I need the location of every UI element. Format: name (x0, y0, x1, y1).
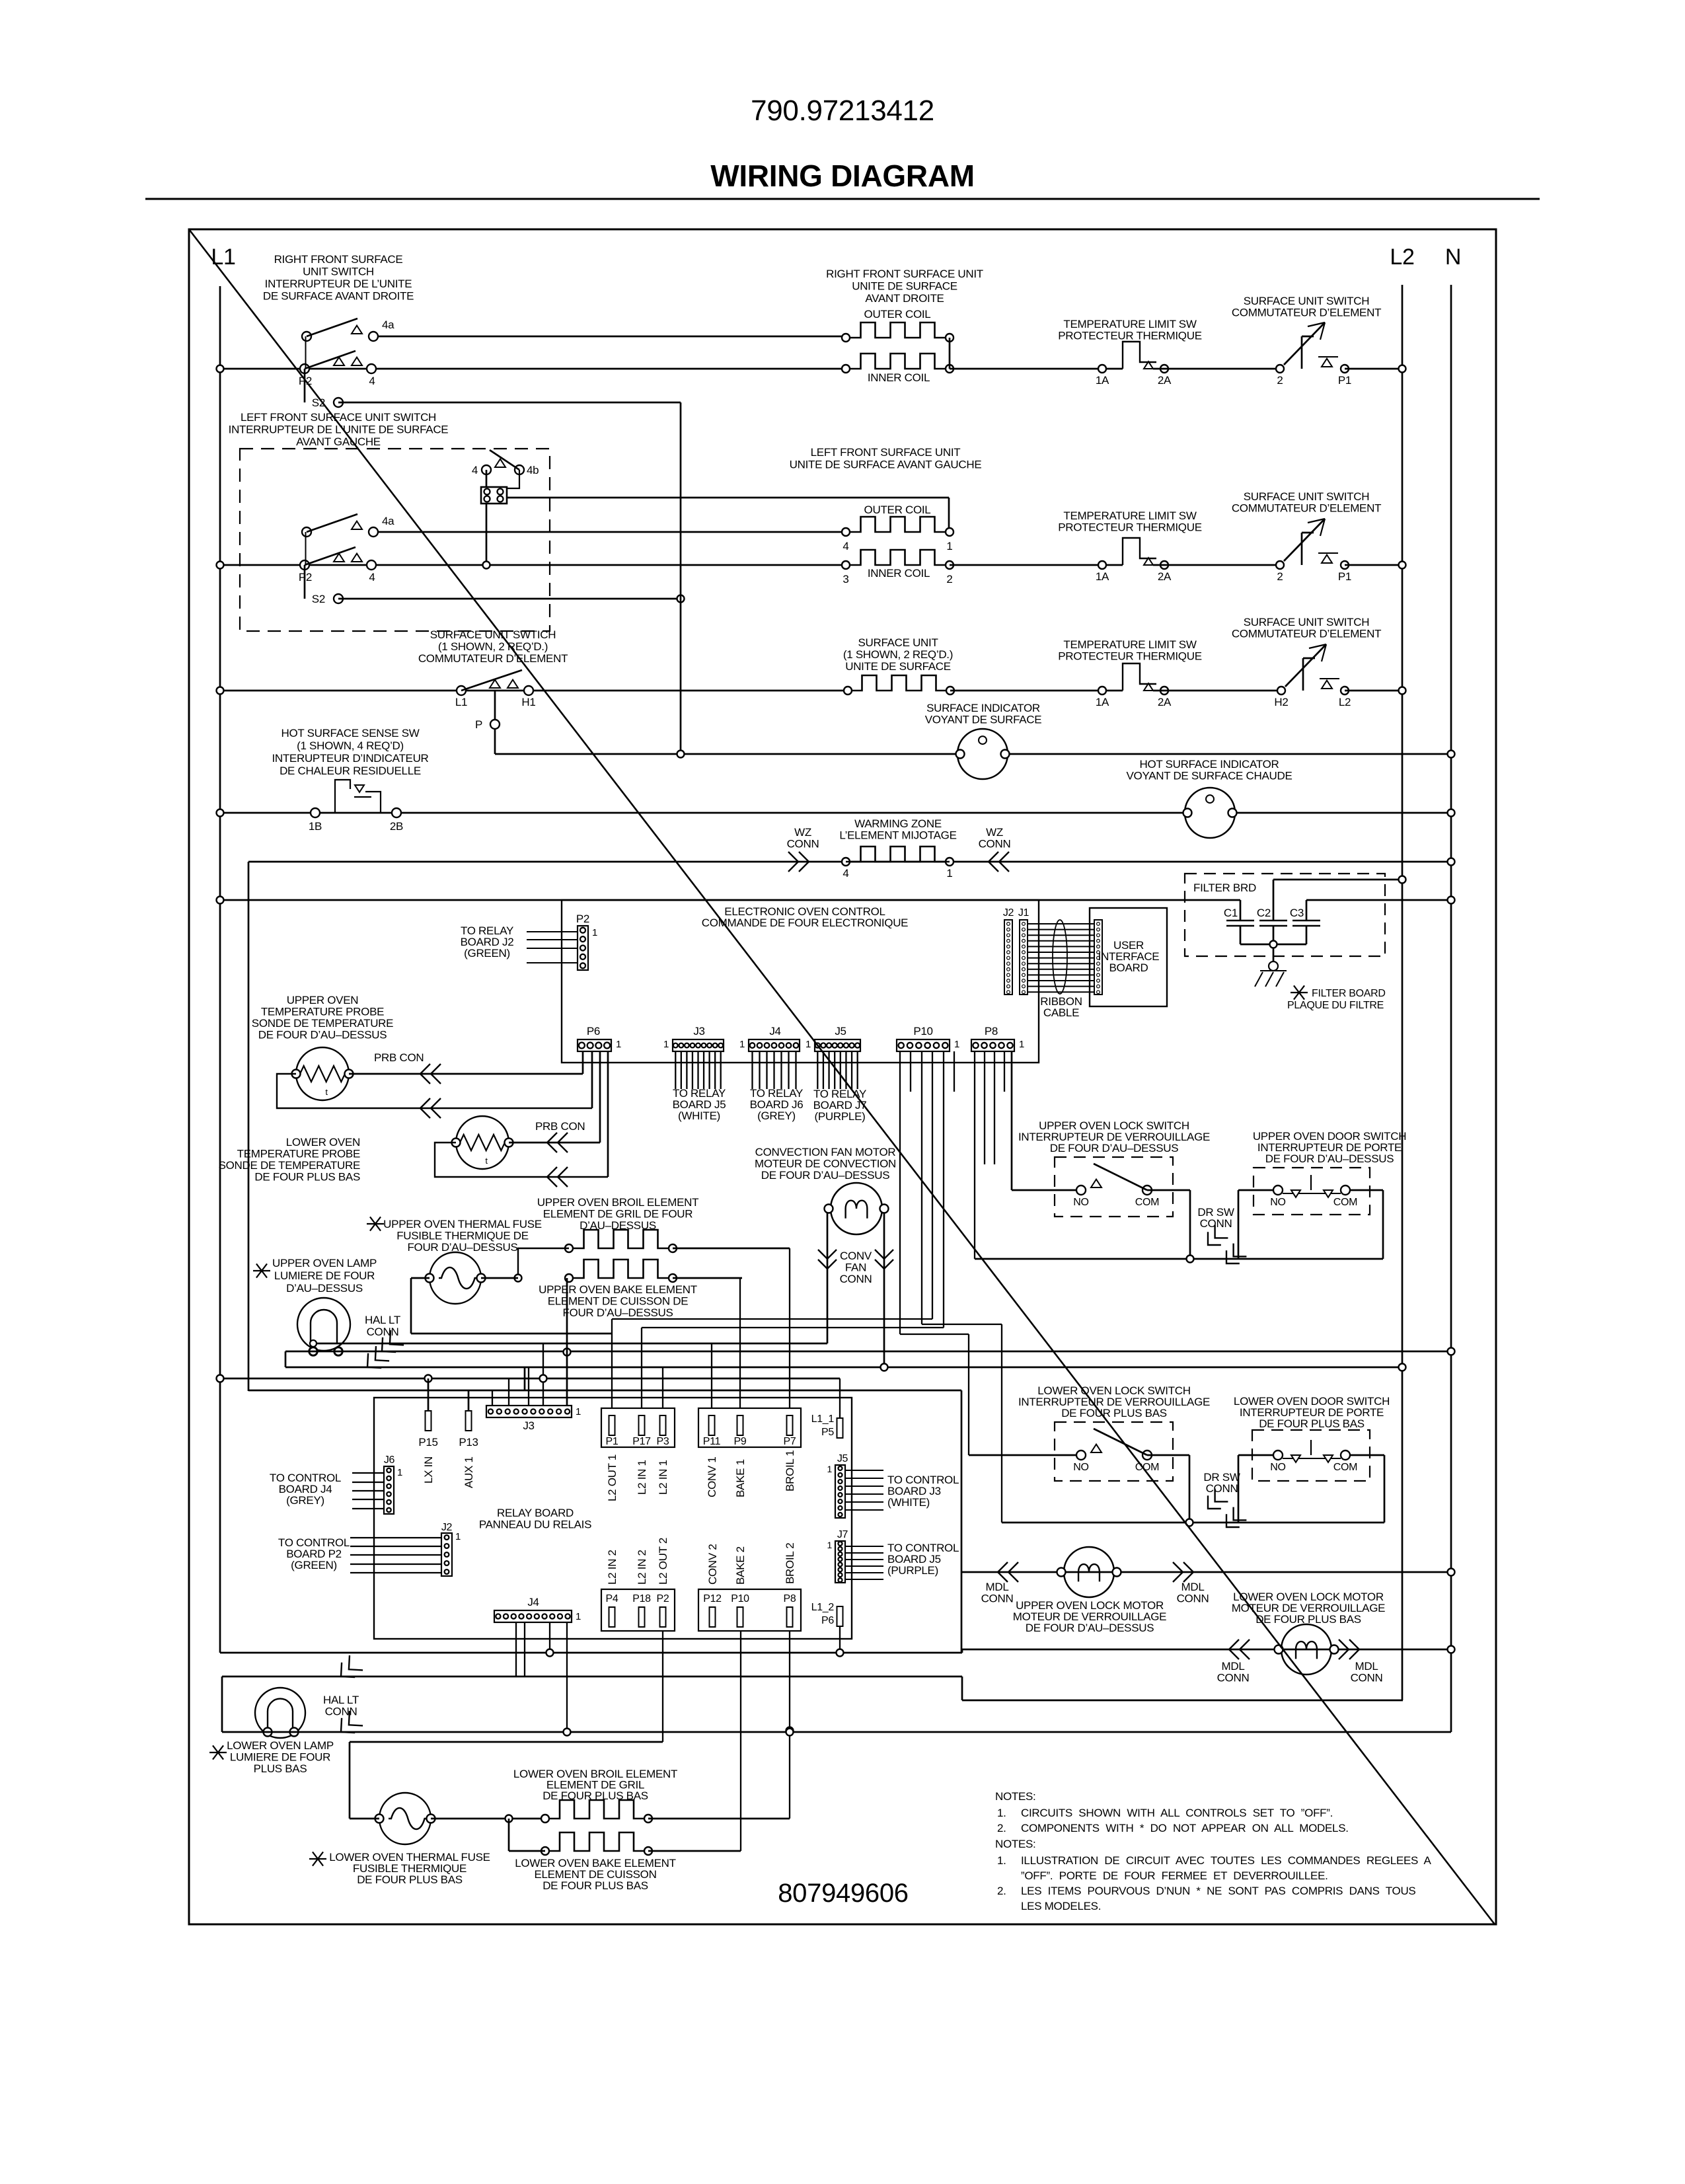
svg-text:L2: L2 (1390, 245, 1414, 270)
svg-text:1A: 1A (1096, 374, 1109, 387)
svg-text:PRB CON: PRB CON (535, 1120, 585, 1133)
svg-text:DE FOUR PLUS BAS: DE FOUR PLUS BAS (543, 1879, 648, 1892)
svg-text:BROIL 2: BROIL 2 (784, 1543, 796, 1584)
svg-text:P8: P8 (784, 1593, 796, 1604)
svg-text:COM: COM (1135, 1197, 1159, 1208)
svg-text:DE SURFACE AVANT DROITE: DE SURFACE AVANT DROITE (263, 290, 414, 303)
svg-text:AVANT GAUCHE: AVANT GAUCHE (296, 435, 381, 448)
svg-text:LOWER OVEN LAMP: LOWER OVEN LAMP (227, 1739, 334, 1752)
svg-text:4: 4 (369, 375, 375, 387)
svg-text:BROIL 1: BROIL 1 (784, 1450, 796, 1491)
svg-text:COMMUTATEUR D’ELEMENT: COMMUTATEUR D’ELEMENT (418, 652, 568, 665)
svg-text:N: N (1445, 245, 1461, 270)
svg-text:RIGHT FRONT SURFACE: RIGHT FRONT SURFACE (274, 253, 403, 266)
svg-text:(WHITE): (WHITE) (678, 1110, 720, 1122)
svg-text:CONN: CONN (1206, 1482, 1238, 1495)
svg-text:C2: C2 (1257, 907, 1271, 919)
svg-text:FOUR D’AU–DESSUS: FOUR D’AU–DESSUS (407, 1241, 517, 1254)
svg-text:PROTECTEUR THERMIQUE: PROTECTEUR THERMIQUE (1058, 330, 1202, 342)
svg-text:1.: 1. (997, 1854, 1006, 1867)
svg-text:2A: 2A (1158, 696, 1172, 708)
svg-text:J4: J4 (527, 1596, 539, 1608)
svg-text:CONN: CONN (840, 1273, 872, 1285)
svg-text:4a: 4a (382, 319, 394, 331)
svg-text:CONN: CONN (1200, 1217, 1232, 1230)
svg-text:L2 IN 1: L2 IN 1 (636, 1460, 648, 1495)
svg-text:(GREY): (GREY) (757, 1110, 796, 1122)
svg-text:DE FOUR D’AU–DESSUS: DE FOUR D’AU–DESSUS (1265, 1152, 1394, 1165)
svg-text:LES ITEMS POURVOUS D’NUN *: LES ITEMS POURVOUS D’NUN * NE SONT PAS C… (1021, 1885, 1415, 1897)
svg-text:VOYANT DE SURFACE: VOYANT DE SURFACE (925, 714, 1042, 726)
svg-text:SONDE DE TEMPERATURE: SONDE DE TEMPERATURE (219, 1159, 360, 1172)
svg-text:SURFACE UNIT SWITCH: SURFACE UNIT SWITCH (1244, 490, 1369, 503)
svg-text:1: 1 (954, 1039, 959, 1050)
svg-text:4: 4 (369, 571, 375, 584)
svg-text:1: 1 (455, 1531, 461, 1542)
svg-text:UNITE DE SURFACE: UNITE DE SURFACE (845, 660, 951, 673)
svg-text:INTERUPTEUR D’INDICATEUR: INTERUPTEUR D’INDICATEUR (272, 752, 428, 765)
svg-text:PROTECTEUR THERMIQUE: PROTECTEUR THERMIQUE (1058, 521, 1202, 534)
svg-text:2: 2 (1277, 374, 1283, 387)
svg-text:CONN: CONN (325, 1706, 357, 1718)
svg-text:C3: C3 (1290, 907, 1304, 919)
svg-text:1: 1 (805, 1039, 811, 1050)
svg-text:NO: NO (1270, 1197, 1285, 1208)
svg-text:ELEMENT DE GRIL DE FOUR: ELEMENT DE GRIL DE FOUR (543, 1208, 693, 1221)
svg-text:BAKE 1: BAKE 1 (734, 1459, 747, 1497)
svg-text:SURFACE UNIT SWITCH: SURFACE UNIT SWITCH (1244, 616, 1369, 628)
svg-text:J1: J1 (1018, 907, 1030, 919)
svg-text:J2: J2 (441, 1522, 453, 1533)
svg-text:LOWER OVEN: LOWER OVEN (286, 1136, 360, 1148)
svg-text:DE FOUR PLUS BAS: DE FOUR PLUS BAS (1061, 1407, 1167, 1419)
svg-text:L’ELEMENT MIJOTAGE: L’ELEMENT MIJOTAGE (839, 829, 956, 842)
svg-text:LEFT FRONT SURFACE UNIT SWITCH: LEFT FRONT SURFACE UNIT SWITCH (241, 411, 436, 424)
svg-text:WIRING DIAGRAM: WIRING DIAGRAM (710, 159, 975, 193)
svg-text:UPPER OVEN: UPPER OVEN (287, 994, 358, 1006)
svg-text:CONV 2: CONV 2 (706, 1544, 719, 1585)
svg-text:PLUS BAS: PLUS BAS (254, 1762, 307, 1775)
svg-text:L2 OUT 1: L2 OUT 1 (606, 1454, 618, 1501)
svg-text:COMMUTATEUR D’ELEMENT: COMMUTATEUR D’ELEMENT (1232, 307, 1381, 319)
svg-text:L2 OUT 2: L2 OUT 2 (657, 1538, 669, 1585)
svg-text:(PURPLE): (PURPLE) (887, 1564, 938, 1577)
svg-text:UPPER OVEN BAKE ELEMENT: UPPER OVEN BAKE ELEMENT (539, 1283, 697, 1296)
svg-text:CONN: CONN (787, 838, 819, 850)
svg-text:DE FOUR D’AU–DESSUS: DE FOUR D’AU–DESSUS (1026, 1622, 1154, 1634)
svg-text:P5: P5 (821, 1427, 834, 1438)
svg-text:P4: P4 (606, 1593, 618, 1604)
svg-text:1A: 1A (1096, 570, 1109, 583)
svg-text:(GREEN): (GREEN) (464, 947, 510, 960)
svg-text:P2: P2 (576, 913, 589, 925)
svg-text:FAN: FAN (845, 1261, 866, 1274)
svg-text:CONN: CONN (1217, 1672, 1250, 1684)
svg-text:2A: 2A (1158, 570, 1172, 583)
svg-text:L1: L1 (455, 696, 467, 708)
svg-text:J4: J4 (769, 1025, 780, 1037)
svg-text:(1 SHOWN, 4 REQ’D): (1 SHOWN, 4 REQ’D) (297, 739, 404, 752)
svg-text:COMPONENTS WITH * DO NOT: COMPONENTS WITH * DO NOT APPEAR ON ALL M… (1021, 1822, 1349, 1834)
svg-text:LUMIERE DE FOUR: LUMIERE DE FOUR (230, 1751, 330, 1764)
svg-text:PRB CON: PRB CON (374, 1051, 424, 1064)
svg-text:1: 1 (739, 1039, 745, 1050)
svg-text:FILTER BOARD: FILTER BOARD (1312, 988, 1386, 999)
svg-text:2.: 2. (997, 1822, 1006, 1834)
svg-text:DE FOUR PLUS BAS: DE FOUR PLUS BAS (1255, 1613, 1361, 1626)
svg-text:2: 2 (1277, 570, 1283, 583)
svg-text:HOT SURFACE SENSE SW: HOT SURFACE SENSE SW (281, 727, 419, 739)
svg-text:4b: 4b (527, 464, 539, 476)
svg-text:DE FOUR PLUS BAS: DE FOUR PLUS BAS (1259, 1417, 1365, 1430)
svg-text:UPPER OVEN BROIL ELEMENT: UPPER OVEN BROIL ELEMENT (537, 1196, 698, 1209)
svg-text:1: 1 (1019, 1039, 1024, 1050)
svg-text:FUSIBLE THERMIQUE DE: FUSIBLE THERMIQUE DE (396, 1230, 529, 1242)
svg-text:J3: J3 (693, 1025, 704, 1037)
svg-text:(PURPLE): (PURPLE) (815, 1110, 866, 1123)
svg-text:J2: J2 (1003, 907, 1014, 919)
svg-text:LEFT FRONT SURFACE UNIT: LEFT FRONT SURFACE UNIT (811, 446, 961, 459)
svg-text:WZ: WZ (986, 826, 1003, 839)
svg-text:P1: P1 (1338, 374, 1351, 387)
svg-text:J5: J5 (835, 1025, 846, 1037)
svg-text:COMMANDE DE FOUR ELECTRONIQUE: COMMANDE DE FOUR ELECTRONIQUE (702, 917, 908, 929)
svg-text:(GREY): (GREY) (286, 1494, 324, 1507)
svg-text:4a: 4a (382, 515, 394, 527)
svg-text:P10: P10 (731, 1593, 749, 1604)
svg-text:DE FOUR PLUS BAS: DE FOUR PLUS BAS (357, 1873, 463, 1886)
svg-text:MDL: MDL (1222, 1660, 1245, 1673)
svg-text:P1: P1 (1338, 570, 1351, 583)
svg-text:1A: 1A (1096, 696, 1109, 708)
svg-text:COM: COM (1333, 1462, 1357, 1473)
svg-text:1: 1 (576, 1611, 581, 1622)
svg-text:NOTES:: NOTES: (995, 1838, 1036, 1850)
svg-text:P17: P17 (632, 1436, 651, 1447)
svg-text:CONN: CONN (979, 838, 1011, 850)
svg-text:OUTER COIL: OUTER COIL (864, 308, 931, 320)
svg-text:BOARD: BOARD (1109, 961, 1148, 974)
svg-text:LES MODELES.: LES MODELES. (1021, 1900, 1101, 1912)
svg-text:FILTER BRD: FILTER BRD (1193, 882, 1256, 894)
svg-text:(1 SHOWN, 2 REQ’D.): (1 SHOWN, 2 REQ’D.) (843, 648, 953, 661)
svg-text:UPPER OVEN LAMP: UPPER OVEN LAMP (272, 1257, 377, 1269)
svg-text:SURFACE INDICATOR: SURFACE INDICATOR (926, 702, 1040, 714)
svg-text:1: 1 (663, 1039, 669, 1050)
svg-text:MOTEUR DE CONVECTION: MOTEUR DE CONVECTION (755, 1158, 896, 1170)
svg-text:2B: 2B (390, 820, 403, 833)
svg-text:P6: P6 (587, 1025, 600, 1037)
svg-text:DE CHALEUR RESIDUELLE: DE CHALEUR RESIDUELLE (280, 765, 421, 777)
svg-text:UNIT SWITCH: UNIT SWITCH (303, 266, 374, 278)
svg-text:2A: 2A (1158, 374, 1172, 387)
svg-text:J6: J6 (384, 1454, 395, 1466)
svg-text:P12: P12 (703, 1593, 722, 1604)
svg-text:INNER COIL: INNER COIL (868, 371, 930, 384)
svg-text:CONN: CONN (367, 1326, 399, 1338)
svg-text:NO: NO (1073, 1462, 1088, 1473)
svg-text:NOTES:: NOTES: (995, 1790, 1036, 1803)
svg-text:H1: H1 (521, 696, 535, 708)
svg-text:1.: 1. (997, 1807, 1006, 1819)
svg-text:OUTER COIL: OUTER COIL (864, 504, 931, 516)
svg-text:L2 IN 2: L2 IN 2 (636, 1550, 648, 1585)
svg-text:SURFACE UNIT: SURFACE UNIT (858, 636, 938, 649)
svg-text:NO: NO (1270, 1462, 1285, 1473)
svg-text:1: 1 (827, 1540, 833, 1550)
svg-text:UNITE DE SURFACE: UNITE DE SURFACE (852, 280, 957, 293)
svg-text:TEMPERATURE LIMIT SW: TEMPERATURE LIMIT SW (1063, 318, 1196, 330)
svg-text:DE FOUR PLUS BAS: DE FOUR PLUS BAS (254, 1171, 360, 1184)
svg-text:TEMPERATURE LIMIT SW: TEMPERATURE LIMIT SW (1063, 509, 1196, 522)
svg-text:DE FOUR D’AU–DESSUS: DE FOUR D’AU–DESSUS (258, 1029, 387, 1041)
svg-text:UNITE DE SURFACE AVANT GAUCHE: UNITE DE SURFACE AVANT GAUCHE (790, 459, 982, 471)
svg-text:VOYANT DE SURFACE CHAUDE: VOYANT DE SURFACE CHAUDE (1127, 770, 1292, 782)
svg-text:UPPER OVEN THERMAL FUSE: UPPER OVEN THERMAL FUSE (383, 1218, 542, 1230)
svg-text:P8: P8 (985, 1025, 998, 1037)
svg-text:P15: P15 (418, 1436, 437, 1449)
svg-text:L2 IN 2: L2 IN 2 (606, 1550, 618, 1585)
svg-text:4: 4 (842, 867, 848, 880)
svg-text:RIGHT FRONT SURFACE UNIT: RIGHT FRONT SURFACE UNIT (826, 268, 983, 280)
svg-text:CONV 1: CONV 1 (706, 1457, 718, 1498)
svg-text:TEMPERATURE PROBE: TEMPERATURE PROBE (261, 1006, 384, 1018)
svg-text:J3: J3 (523, 1419, 534, 1432)
svg-text:CONVECTION FAN MOTOR: CONVECTION FAN MOTOR (755, 1146, 896, 1158)
svg-text:1: 1 (946, 540, 952, 552)
svg-text:COMMUTATEUR D’ELEMENT: COMMUTATEUR D’ELEMENT (1232, 502, 1381, 515)
svg-text:SONDE DE TEMPERATURE: SONDE DE TEMPERATURE (252, 1017, 393, 1030)
svg-text:C1: C1 (1224, 907, 1238, 919)
svg-text:L1_2: L1_2 (811, 1602, 835, 1613)
svg-text:FOUR D’AU–DESSUS: FOUR D’AU–DESSUS (562, 1306, 673, 1319)
svg-text:MDL: MDL (1355, 1660, 1378, 1673)
svg-text:1: 1 (946, 867, 952, 880)
svg-text:HAL LT: HAL LT (323, 1694, 359, 1706)
svg-text:BAKE 2: BAKE 2 (734, 1546, 747, 1585)
svg-text:(WHITE): (WHITE) (887, 1496, 930, 1509)
svg-text:TEMPERATURE PROBE: TEMPERATURE PROBE (237, 1148, 360, 1160)
svg-text:MDL: MDL (986, 1581, 1009, 1593)
svg-text:RELAY BOARD: RELAY BOARD (497, 1507, 574, 1519)
svg-text:2.: 2. (997, 1885, 1006, 1897)
svg-text:P9: P9 (734, 1436, 747, 1447)
svg-text:DE FOUR D’AU–DESSUS: DE FOUR D’AU–DESSUS (1050, 1142, 1179, 1154)
svg-text:D’AU–DESSUS: D’AU–DESSUS (286, 1282, 363, 1295)
svg-text:1: 1 (616, 1039, 621, 1050)
svg-text:P7: P7 (784, 1436, 796, 1447)
svg-text:(1 SHOWN, 2 REQ’D.): (1 SHOWN, 2 REQ’D.) (438, 640, 548, 653)
svg-text:PANNEAU DU RELAIS: PANNEAU DU RELAIS (479, 1519, 591, 1531)
svg-text:INTERRUPTEUR DE L’UNITE: INTERRUPTEUR DE L’UNITE (265, 278, 412, 290)
svg-text:1B: 1B (309, 820, 322, 833)
svg-text:”OFF”. PORTE DE FOUR FERME: ”OFF”. PORTE DE FOUR FERMEE ET DEVERROUI… (1021, 1869, 1328, 1882)
svg-text:DE FOUR D’AU–DESSUS: DE FOUR D’AU–DESSUS (761, 1169, 890, 1182)
svg-text:INTERRUPTEUR DE L’UNITE DE SUR: INTERRUPTEUR DE L’UNITE DE SURFACE (229, 424, 449, 436)
svg-text:2: 2 (946, 573, 952, 585)
svg-text:1: 1 (397, 1467, 402, 1478)
svg-text:L2: L2 (1339, 696, 1351, 708)
svg-text:L2 IN 1: L2 IN 1 (657, 1460, 669, 1495)
svg-text:WARMING ZONE: WARMING ZONE (854, 817, 942, 830)
svg-text:P11: P11 (703, 1436, 721, 1447)
svg-text:NO: NO (1073, 1197, 1088, 1208)
svg-text:3: 3 (842, 573, 848, 585)
svg-text:COMMUTATEUR D’ELEMENT: COMMUTATEUR D’ELEMENT (1232, 628, 1381, 640)
svg-text:4: 4 (842, 540, 848, 552)
svg-text:CONN: CONN (981, 1593, 1014, 1605)
svg-text:790.97213412: 790.97213412 (751, 94, 934, 127)
svg-text:L1_1: L1_1 (811, 1413, 835, 1425)
svg-text:CABLE: CABLE (1043, 1006, 1079, 1019)
svg-text:P10: P10 (913, 1025, 932, 1037)
svg-text:J5: J5 (837, 1453, 848, 1464)
svg-text:P: P (475, 718, 482, 731)
svg-text:P13: P13 (459, 1436, 478, 1449)
svg-text:1: 1 (576, 1406, 581, 1417)
svg-text:PROTECTEUR THERMIQUE: PROTECTEUR THERMIQUE (1058, 650, 1202, 663)
svg-text:P1: P1 (606, 1436, 618, 1447)
svg-text:(GREEN): (GREEN) (291, 1559, 337, 1571)
svg-text:TEMPERATURE LIMIT SW: TEMPERATURE LIMIT SW (1063, 638, 1196, 651)
svg-text:1: 1 (827, 1464, 833, 1474)
svg-text:LX IN: LX IN (422, 1456, 435, 1484)
svg-text:LUMIERE DE FOUR: LUMIERE DE FOUR (274, 1269, 375, 1282)
svg-text:SURFACE UNIT SWITCH: SURFACE UNIT SWITCH (1244, 295, 1369, 307)
svg-text:CIRCUITS SHOWN WITH ALL CO: CIRCUITS SHOWN WITH ALL CONTROLS SET TO … (1021, 1807, 1333, 1819)
svg-text:S2: S2 (312, 593, 325, 605)
svg-text:P18: P18 (632, 1593, 651, 1604)
svg-text:1: 1 (592, 927, 597, 938)
svg-text:J7: J7 (837, 1529, 848, 1540)
svg-text:MDL: MDL (1181, 1581, 1205, 1593)
svg-text:AVANT DROITE: AVANT DROITE (865, 292, 944, 305)
svg-text:AUX 1: AUX 1 (463, 1456, 475, 1488)
svg-text:WZ: WZ (794, 826, 811, 839)
svg-text:ILLUSTRATION DE CIRCUIT AVE: ILLUSTRATION DE CIRCUIT AVEC TOUTES LES … (1021, 1854, 1432, 1867)
svg-text:4: 4 (472, 464, 478, 476)
svg-text:HAL LT: HAL LT (365, 1314, 400, 1326)
svg-text:807949606: 807949606 (778, 1879, 909, 1908)
svg-text:P6: P6 (821, 1615, 834, 1626)
svg-text:CONN: CONN (1177, 1593, 1209, 1605)
svg-text:PLAQUE DU FILTRE: PLAQUE DU FILTRE (1287, 1000, 1384, 1011)
svg-text:INNER COIL: INNER COIL (868, 567, 930, 580)
svg-text:P3: P3 (657, 1436, 669, 1447)
svg-text:COM: COM (1333, 1197, 1357, 1208)
svg-text:ELEMENT DE CUISSON DE: ELEMENT DE CUISSON DE (548, 1295, 689, 1308)
svg-text:CONN: CONN (1351, 1672, 1383, 1684)
svg-text:CONV: CONV (840, 1250, 872, 1262)
svg-text:HOT SURFACE INDICATOR: HOT SURFACE INDICATOR (1140, 758, 1279, 771)
svg-text:SURFACE UNIT SWTICH: SURFACE UNIT SWTICH (430, 628, 556, 641)
svg-text:P2: P2 (657, 1593, 669, 1604)
svg-text:L1: L1 (211, 245, 235, 270)
svg-text:H2: H2 (1274, 696, 1288, 708)
